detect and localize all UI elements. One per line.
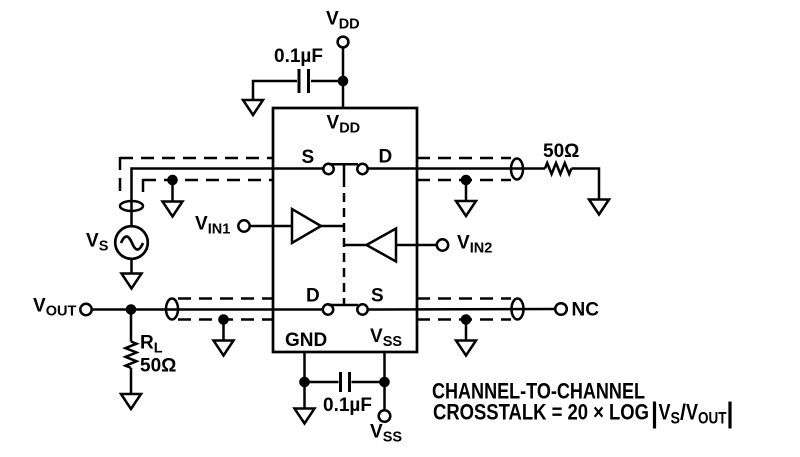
capacitor C2 value label [323, 395, 372, 416]
wire switch D to 50ohm resistor [368, 167, 545, 170]
wire VS center conductor to switch S [132, 169, 324, 227]
svg-text:OUT: OUT [698, 409, 727, 428]
svg-text:D: D [379, 147, 393, 168]
coax shield (top left) outer dashed [120, 157, 273, 160]
wire GND pin down [303, 352, 306, 409]
switch SW1 blade [329, 163, 358, 166]
svg-text:NC: NC [572, 300, 600, 321]
node VSS label [370, 422, 402, 446]
capacitor C2 left wire [305, 381, 339, 384]
switch SW1 S contact [323, 164, 333, 174]
coax shield (top right) bottom dashed [417, 179, 511, 182]
ground (top left shield) [163, 202, 183, 217]
coax shield (bottom right) bottom dashed [417, 318, 511, 321]
node shield ground junction (bottom right) [461, 314, 472, 325]
wire VOUT to switch D [92, 308, 323, 311]
switch SW2 S contact [357, 304, 367, 314]
svg-text:CROSSTALK = 20 × LOG: CROSSTALK = 20 × LOG [433, 400, 649, 425]
capacitor C2 right wire [352, 381, 385, 384]
svg-text:V: V [659, 400, 671, 425]
wire switch S to NC [368, 308, 555, 311]
control line dashed between switches [343, 178, 346, 301]
svg-text:S: S [671, 409, 681, 428]
wire VDD terminal to box [342, 48, 345, 109]
coax opening ellipse (top left) [120, 201, 143, 211]
svg-text:50Ω: 50Ω [543, 141, 579, 162]
ground (below VS) [122, 274, 142, 289]
wire shield junction down [171, 180, 174, 202]
coax opening ellipse (bottom right) [512, 299, 524, 320]
wire junction to RL [130, 310, 133, 342]
wire cap right to VDD node [311, 80, 343, 83]
coax shield (top right) top dashed [417, 157, 511, 160]
switch SW1 actuator tick [343, 164, 346, 178]
source VS label [86, 231, 109, 255]
switch SW2 actuator tick [343, 300, 346, 305]
svg-text:0.1µF: 0.1µF [274, 46, 323, 67]
coax opening ellipse (bottom left) [166, 299, 178, 320]
svg-text:GND: GND [285, 330, 327, 351]
resistor RL [126, 342, 137, 368]
node VIN1 terminal [238, 220, 249, 231]
buffer A1 input wire [250, 225, 292, 228]
buffer A2 (driver ch2) [367, 229, 397, 262]
resistor 50ohm (termination) [545, 163, 571, 174]
node VIN1 label [195, 214, 230, 238]
node VDD terminal label [326, 9, 360, 33]
svg-text:S: S [302, 147, 315, 168]
crosstalk formula Vs/Vout [659, 400, 727, 428]
node VOUT junction [126, 304, 137, 315]
switch SW2 blade [329, 304, 359, 307]
source VS sine wave [121, 237, 143, 250]
svg-text:S: S [371, 286, 384, 307]
switch SW1 D contact [357, 164, 367, 174]
ground (bottom left shield) [214, 341, 234, 356]
VSS terminal [379, 410, 391, 422]
node VDD junction [338, 76, 349, 87]
svg-text:50Ω: 50Ω [140, 356, 176, 377]
pin label D (bottom switch) [306, 286, 320, 307]
ground (termination) [589, 200, 609, 215]
node VIN2 label [457, 233, 492, 257]
wire VS to ground [130, 259, 133, 274]
capacitor C1 0.1uF label [274, 46, 323, 67]
ground (bottom right shield) [456, 341, 476, 356]
resistor RL value 50ohm [140, 356, 176, 377]
pin label D (top switch) [379, 147, 393, 168]
svg-text:V: V [686, 400, 698, 425]
node VIN2 terminal [437, 239, 448, 250]
crosstalk formula line2 [433, 400, 649, 425]
pin label S (top switch) [302, 147, 315, 168]
node shield ground junction (top left) [167, 175, 178, 186]
node VSS junction [379, 377, 390, 388]
svg-text:0.1µF: 0.1µF [323, 395, 372, 416]
ground (below RL) [121, 394, 141, 409]
pin label VDD inside box [327, 113, 361, 137]
VDD terminal [338, 37, 349, 48]
wire shield junction down (bottom right) [465, 320, 468, 341]
wire shield junction down (top right) [465, 180, 468, 201]
capacitor C2 [339, 372, 342, 392]
resistor RL label [140, 333, 163, 357]
IC box U1 [273, 108, 417, 352]
node VOUT label [33, 296, 76, 320]
node NC label [572, 300, 600, 321]
coax shield (bottom right) top dashed [417, 297, 511, 300]
pin label GND inside box [285, 330, 327, 351]
wire shield junction down (bottom left) [222, 320, 225, 341]
wire VSS pin down [383, 352, 386, 410]
node shield ground junction (bottom left) [218, 314, 229, 325]
node shield ground junction (top right) [461, 175, 472, 186]
ground (GND pin) [295, 409, 315, 424]
buffer A2 output wire [344, 244, 367, 247]
capacitor C1 [298, 69, 301, 93]
pin label VSS inside box [370, 326, 402, 350]
svg-text:D: D [306, 286, 320, 307]
coax shield (top left) inner dashed [143, 179, 273, 182]
source VS [115, 226, 148, 259]
buffer A1 (driver ch1) [292, 209, 321, 243]
buffer A2 input wire [396, 244, 437, 247]
buffer A1 output wire [321, 225, 344, 228]
node GND junction [299, 377, 310, 388]
crosstalk formula absolute value bars [653, 402, 656, 429]
node NC terminal [555, 303, 567, 315]
ground (top left cap) [243, 100, 263, 115]
switch SW2 D contact [323, 304, 333, 314]
wire 50ohm to ground corner [571, 169, 599, 200]
VOUT terminal [80, 304, 91, 315]
crosstalk formula line1 [432, 379, 645, 404]
coax shield (bottom left) bottom dashed [178, 318, 273, 321]
wire RL to ground [130, 368, 133, 394]
coax opening ellipse (top right) [511, 159, 523, 180]
pin label S (bottom switch) [371, 286, 384, 307]
wire cap left [253, 81, 297, 100]
ground (top right shield) [456, 201, 476, 216]
coax shield (bottom left) top dashed [178, 297, 273, 300]
resistor 50ohm label [543, 141, 579, 162]
